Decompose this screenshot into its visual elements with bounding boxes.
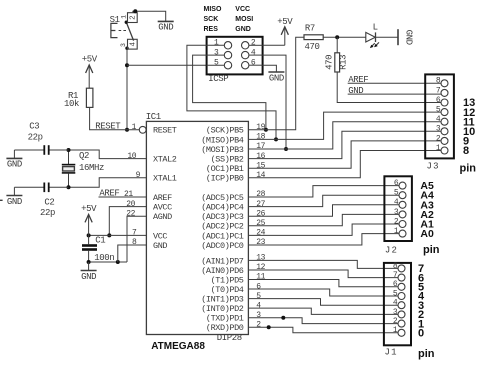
wire analog/digital ground tie	[89, 261, 127, 263]
power +5V (ICSP)	[277, 17, 293, 45]
svg-text:GND: GND	[7, 197, 22, 207]
svg-text:16: 16	[256, 152, 265, 161]
svg-text:6: 6	[393, 280, 398, 289]
svg-text:4: 4	[436, 115, 441, 124]
ground GND (LED) rotated	[398, 29, 413, 45]
svg-text:3: 3	[393, 308, 398, 317]
svg-text:6: 6	[436, 96, 441, 105]
svg-text:RESET: RESET	[153, 126, 177, 136]
svg-text:(ADC3)PC3: (ADC3)PC3	[201, 212, 244, 222]
svg-text:RESET: RESET	[95, 122, 121, 132]
svg-text:10: 10	[127, 152, 136, 161]
junction TX (PD1)	[281, 316, 285, 320]
svg-text:ATMEGA88: ATMEGA88	[151, 341, 205, 352]
svg-text:1: 1	[436, 144, 441, 153]
svg-text:ICSP: ICSP	[208, 74, 228, 84]
svg-text:17: 17	[256, 142, 265, 151]
svg-text:24: 24	[256, 229, 265, 238]
svg-text:+5V: +5V	[277, 17, 293, 27]
svg-text:DIP28: DIP28	[217, 333, 242, 343]
J1 pin 2	[393, 317, 405, 327]
J3 pin 3	[436, 125, 448, 135]
svg-text:MOSI: MOSI	[235, 16, 253, 23]
wire ICSP VCC to +5V	[263, 44, 285, 46]
svg-text:20: 20	[126, 200, 135, 209]
wire RES to ICSP pin 5	[127, 64, 207, 66]
svg-text:4: 4	[256, 301, 261, 310]
power +5V (R1)	[82, 55, 98, 89]
svg-text:J1: J1	[385, 348, 398, 358]
svg-text:(TXD)PD1: (TXD)PD1	[206, 314, 244, 324]
svg-text:GND: GND	[403, 30, 413, 45]
svg-text:1: 1	[393, 326, 398, 335]
svg-text:J2: J2	[385, 245, 398, 255]
svg-text:3: 3	[214, 49, 219, 58]
svg-text:(ADC2)PC2: (ADC2)PC2	[201, 222, 244, 232]
svg-text:3: 3	[436, 125, 441, 134]
svg-text:GND: GND	[7, 160, 22, 170]
svg-text:3: 3	[394, 208, 399, 217]
svg-text:RES: RES	[204, 26, 219, 33]
svg-text:470: 470	[305, 42, 320, 52]
svg-text:+5V: +5V	[81, 204, 97, 214]
J1 pin 7	[393, 271, 405, 281]
svg-text:13: 13	[256, 254, 265, 263]
svg-text:2: 2	[436, 134, 441, 143]
wire MISO to PB4	[187, 45, 276, 139]
svg-text:15: 15	[256, 161, 265, 170]
svg-text:4: 4	[251, 49, 256, 58]
svg-text:7: 7	[393, 271, 398, 280]
svg-text:VCC: VCC	[235, 6, 250, 13]
wire S1 pin2 to GND	[133, 11, 166, 21]
wire GND (pin 8)	[118, 245, 147, 262]
ICSP pin 2	[242, 39, 263, 49]
svg-text:3: 3	[120, 43, 127, 47]
svg-text:14: 14	[256, 171, 265, 180]
svg-text:19: 19	[256, 123, 265, 132]
J3 pin 7	[436, 86, 448, 96]
svg-text:(ICP)PB0: (ICP)PB0	[206, 174, 244, 184]
IC1 pin 1 inversion bubble	[139, 126, 146, 133]
svg-text:A0: A0	[420, 228, 434, 240]
svg-text:R7: R7	[305, 24, 315, 34]
S1 pin 2 box	[128, 13, 138, 23]
svg-text:1: 1	[132, 123, 137, 132]
J3 pin 4	[436, 115, 448, 125]
wire PB5 to R7	[248, 37, 304, 130]
wire C3 to GND	[13, 150, 15, 158]
svg-text:GND: GND	[153, 241, 167, 251]
svg-text:23: 23	[256, 238, 265, 247]
connector J3 box	[425, 74, 454, 158]
svg-text:6: 6	[251, 59, 256, 68]
J2 pin 2	[394, 217, 406, 227]
ground GND (C1)	[81, 271, 97, 282]
svg-text:(ADC1)PC1: (ADC1)PC1	[201, 231, 244, 241]
svg-text:C2: C2	[44, 198, 54, 208]
wire R7 to LED	[323, 36, 366, 38]
capacitor C1 100n	[82, 235, 114, 263]
svg-text:VCC: VCC	[153, 231, 167, 241]
wire PB0 to J3 (D8)	[248, 151, 441, 178]
svg-text:J3: J3	[427, 162, 440, 172]
svg-text:5: 5	[393, 289, 398, 298]
wire PC4 to J2 (A4)	[248, 195, 399, 206]
wire RESET net	[90, 107, 140, 129]
J3 pin 2	[436, 134, 448, 144]
svg-text:+5V: +5V	[82, 55, 98, 65]
svg-text:AVCC: AVCC	[153, 203, 172, 213]
svg-text:18: 18	[256, 133, 265, 142]
svg-text:10k: 10k	[64, 99, 79, 109]
svg-text:(SCK)PB5: (SCK)PB5	[206, 126, 244, 136]
ground GND (S1)	[158, 21, 174, 32]
J1 pin 6	[393, 280, 405, 290]
wire PD7 to J1 (D7)	[248, 260, 398, 268]
ground GND (ICSP)	[268, 72, 284, 83]
svg-text:(T1)PD5: (T1)PD5	[211, 275, 244, 285]
svg-text:GND: GND	[235, 26, 251, 33]
wire SCK to PB5	[193, 55, 266, 130]
J1 pin 3	[393, 308, 405, 318]
svg-text:21: 21	[124, 190, 133, 199]
J2 pin 3	[394, 208, 406, 218]
S1 pin 4 box	[128, 39, 138, 49]
svg-text:GND: GND	[269, 73, 284, 83]
svg-text:L: L	[373, 22, 378, 32]
ICSP pin 6	[242, 59, 263, 69]
wire LED to GND	[376, 36, 399, 38]
J3 bold pin labels 13..8	[463, 97, 475, 157]
svg-text:5: 5	[256, 292, 261, 301]
svg-text:(SS)PB2: (SS)PB2	[211, 155, 244, 165]
wire PC5 to J2 (A5)	[248, 186, 399, 197]
wire PD4 to J1 (D4)	[248, 289, 398, 296]
wire XTAL2 (pin 10)	[69, 150, 147, 159]
wire PD5 to J1 (D5)	[248, 280, 398, 287]
svg-text:22: 22	[126, 209, 135, 218]
svg-text:pin: pin	[423, 244, 440, 256]
svg-text:8: 8	[436, 77, 441, 86]
wire AGND (pin 22)	[127, 216, 146, 262]
svg-text:2: 2	[251, 39, 256, 48]
J1 bold pin labels 7..0	[418, 263, 425, 339]
svg-text:XTAL2: XTAL2	[153, 155, 177, 165]
wire PD3 to J1 (D3)	[248, 299, 398, 306]
svg-text:(AIN1)PD7: (AIN1)PD7	[201, 256, 244, 266]
svg-text:4: 4	[394, 198, 399, 207]
svg-text:GND: GND	[81, 272, 96, 282]
svg-text:0: 0	[418, 328, 424, 340]
wire C2 to GND	[13, 187, 15, 195]
wire XTAL1 (pin 9)	[69, 178, 147, 188]
svg-text:(AIN0)PD6: (AIN0)PD6	[201, 266, 244, 276]
power +5V (C1)	[81, 204, 97, 236]
J2 pin 5	[394, 189, 406, 199]
svg-text:1: 1	[120, 15, 127, 19]
LED L	[366, 22, 379, 48]
svg-text:(INT1)PD3: (INT1)PD3	[201, 295, 244, 305]
wire PB4 to J3 (D12)	[248, 112, 441, 139]
connector J2 box	[384, 176, 412, 241]
svg-text:7: 7	[436, 86, 441, 95]
wire R13 to J3 pin 6 (D13)	[337, 72, 441, 103]
wire PC3 to J2 (A3)	[248, 205, 399, 216]
wire PB3 to J3 (D11)	[248, 122, 441, 149]
svg-text:(ADC0)PC0: (ADC0)PC0	[201, 241, 244, 251]
svg-text:8: 8	[393, 262, 398, 271]
svg-text:5: 5	[394, 189, 399, 198]
wire VCC (pin 7)	[89, 234, 147, 236]
svg-text:SCK: SCK	[204, 16, 219, 23]
svg-text:C1: C1	[95, 236, 105, 246]
svg-text:16MHz: 16MHz	[79, 163, 104, 173]
svg-text:(T0)PD4: (T0)PD4	[211, 285, 244, 295]
J1 pin 8	[393, 262, 405, 272]
svg-text:(ADC4)PC4: (ADC4)PC4	[201, 203, 244, 213]
J1 pin 5	[393, 289, 405, 299]
ICSP pin 4	[242, 49, 263, 59]
wire ICSP GND	[263, 65, 277, 72]
resistor R1 10k	[64, 88, 93, 109]
wire MOSI to PB3	[263, 55, 286, 149]
svg-text:1: 1	[214, 39, 219, 48]
svg-text:XTAL1: XTAL1	[153, 174, 177, 184]
J2 pin 6	[394, 179, 406, 189]
wire PC0 to J2 (A0)	[248, 234, 399, 245]
svg-text:2: 2	[256, 320, 261, 329]
svg-text:22p: 22p	[28, 133, 43, 143]
wire PB1 to J3 (D9)	[248, 141, 441, 168]
net label GND (J3)	[348, 86, 441, 96]
svg-text:25: 25	[256, 219, 265, 228]
svg-text:28: 28	[256, 190, 265, 199]
svg-text:pin: pin	[460, 163, 477, 175]
wire PC2 to J2 (A2)	[248, 214, 399, 225]
resistor R7 470	[304, 24, 323, 53]
wire PD6 to J1 (D6)	[248, 270, 398, 278]
svg-text:(MOSI)PB3: (MOSI)PB3	[201, 145, 244, 155]
svg-text:Q2: Q2	[79, 151, 89, 161]
svg-text:22p: 22p	[40, 208, 55, 218]
svg-text:27: 27	[256, 200, 265, 209]
svg-text:6: 6	[256, 282, 261, 291]
svg-text:9: 9	[136, 171, 141, 180]
connector J1 box	[384, 263, 411, 345]
wire PD1 to J1 (D1)	[248, 318, 398, 324]
wire S1 pin4 / ICSP RES / RESET node	[126, 49, 128, 130]
J1 pin 4	[393, 299, 405, 309]
ICSP pin 3	[207, 49, 232, 59]
wire PC1 to J2 (A1)	[248, 224, 399, 235]
ICSP bold signal labels	[204, 6, 254, 33]
svg-text:2: 2	[393, 317, 398, 326]
svg-text:4: 4	[130, 41, 138, 46]
net label AREF (J3)	[348, 75, 441, 85]
svg-text:8: 8	[463, 145, 469, 157]
J2 bold pin labels A5..A0	[420, 180, 434, 240]
switch S1	[110, 15, 134, 50]
svg-text:(RXD)PD0: (RXD)PD0	[206, 323, 244, 333]
svg-text:(OC1)PB1: (OC1)PB1	[206, 164, 244, 174]
J3 pin 1	[436, 144, 448, 154]
svg-text:12: 12	[256, 263, 265, 272]
svg-text:pin: pin	[418, 348, 435, 360]
svg-text:(ADC5)PC5: (ADC5)PC5	[201, 193, 244, 203]
crystal Q2 16MHz	[62, 150, 104, 187]
ICSP pin 1	[207, 39, 232, 49]
wire C1 to GND	[88, 262, 90, 270]
svg-text:26: 26	[256, 209, 265, 218]
ground GND (C3)	[6, 158, 22, 169]
svg-text:IC1: IC1	[146, 112, 161, 122]
svg-text:C3: C3	[29, 122, 39, 132]
svg-text:(INT0)PD2: (INT0)PD2	[201, 304, 244, 314]
J3 pin 5	[436, 106, 448, 116]
svg-text:8: 8	[132, 238, 137, 247]
svg-text:1: 1	[394, 227, 399, 236]
resistor R13 470	[324, 37, 348, 72]
wire AVCC (pin 20)	[109, 207, 146, 236]
capacitor C3 22p	[14, 122, 68, 155]
J3 pin 6	[436, 96, 448, 106]
ICSP pin 5	[207, 59, 232, 69]
svg-text:2: 2	[130, 15, 138, 20]
svg-text:5: 5	[436, 106, 441, 115]
wire PB2 to J3 (D10)	[248, 131, 441, 158]
svg-text:7: 7	[132, 229, 137, 238]
svg-text:AGND: AGND	[153, 212, 172, 222]
J2 pin 4	[394, 198, 406, 208]
junction RX (PD0)	[267, 325, 271, 329]
svg-text:6: 6	[394, 179, 399, 188]
svg-text:3: 3	[256, 311, 261, 320]
svg-text:GND: GND	[158, 23, 173, 33]
svg-text:(MISO)PB4: (MISO)PB4	[201, 135, 244, 145]
wire PD2 to J1 (D2)	[248, 308, 398, 314]
svg-text:R13: R13	[338, 55, 348, 70]
svg-text:2: 2	[394, 217, 399, 226]
ICSP header J? box	[207, 37, 263, 75]
svg-text:5: 5	[214, 59, 219, 68]
J1 pin 1	[393, 326, 405, 336]
edge mark	[0, 199, 3, 201]
capacitor C2 22p	[14, 183, 68, 219]
op-amp:not; IC U1 ATMEGA88 body	[146, 121, 248, 334]
svg-text:11: 11	[256, 273, 265, 282]
svg-text:4: 4	[393, 299, 398, 308]
J2 pin 1	[394, 227, 406, 237]
J3 pin 8	[436, 77, 448, 87]
net label AREF (pin 21)	[99, 189, 147, 199]
svg-text:AREF: AREF	[153, 193, 172, 203]
svg-text:470: 470	[324, 55, 334, 70]
ground GND (C2)	[6, 196, 22, 207]
wire PD0 to J1 (D0)	[248, 327, 398, 333]
svg-text:MISO: MISO	[204, 6, 222, 13]
